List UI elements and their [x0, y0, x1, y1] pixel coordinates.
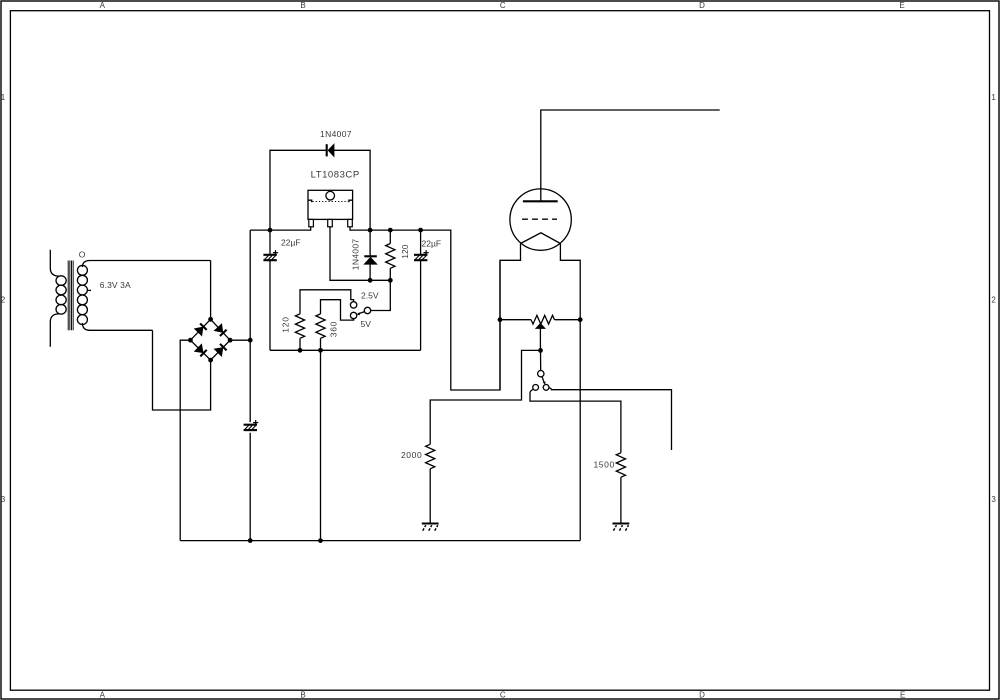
- resistor R2 120: [295, 314, 304, 338]
- svg-text:5V: 5V: [361, 319, 372, 329]
- wire protection diode loop: [270, 150, 370, 230]
- node ADJ at R1: [388, 278, 393, 283]
- svg-text:3: 3: [1, 495, 6, 504]
- ground at R5: [422, 524, 439, 531]
- zone labels left: [1, 93, 6, 504]
- U1 pin 3: [348, 219, 353, 226]
- svg-text:E: E: [900, 690, 905, 699]
- svg-text:2: 2: [991, 295, 996, 304]
- svg-text:1N4007: 1N4007: [351, 239, 361, 271]
- wire right throw to open stub: [549, 388, 672, 450]
- bridge diode D4 (bottom-right edge): [215, 344, 227, 356]
- capacitor C1 (filter, lower left): [244, 420, 259, 430]
- wire lower return line: [270, 349, 421, 351]
- node R3 bottom: [318, 348, 323, 353]
- node wiper junction: [538, 348, 543, 353]
- node output rail at C3: [418, 228, 423, 233]
- wire wiper to switch S2 pole: [540, 350, 542, 371]
- switch S1 throw 2.5V: [350, 302, 356, 308]
- node ADJ at D6: [368, 278, 373, 283]
- resistor R5 2000: [426, 444, 435, 469]
- wire wiper to R5 2000: [430, 350, 540, 444]
- capacitor C2 22uF input: [269, 230, 271, 350]
- svg-text:120: 120: [400, 244, 410, 258]
- bridge diode D2 (top-right edge): [215, 324, 227, 336]
- diode D6 1N4007 (vertical, across ADJ): [369, 230, 371, 280]
- svg-text:2000: 2000: [401, 450, 422, 460]
- node bridge plus: [248, 338, 253, 343]
- transformer T1 core: [68, 261, 73, 331]
- switch S2 throw left: [533, 385, 539, 391]
- wire 2.5V throw to R2: [300, 290, 354, 314]
- node bottom rail at R3 line: [318, 538, 323, 543]
- switch S1 pole: [364, 307, 370, 313]
- switch S2 lever: [542, 377, 546, 385]
- svg-text:O: O: [79, 250, 86, 260]
- node bottom rail at C1: [248, 538, 253, 543]
- svg-text:B: B: [300, 1, 305, 10]
- svg-text:22µF: 22µF: [422, 239, 442, 249]
- wire bottom rail: [180, 540, 580, 542]
- svg-text:120: 120: [281, 316, 291, 333]
- capacitor C3 22uF output: [420, 230, 422, 350]
- node R2 bottom: [298, 348, 303, 353]
- bridge vertex nodes: [208, 317, 213, 322]
- wire raw DC vertical rail: [249, 230, 251, 540]
- wire bridge plus to main rail: [230, 339, 250, 341]
- transformer center tap tick: [87, 289, 91, 291]
- zone labels top: [100, 1, 905, 10]
- switch S1 throw 5V: [350, 312, 356, 318]
- transformer T1 primary winding: [50, 250, 66, 347]
- U1 pin 2: [328, 219, 333, 226]
- node input rail / C2: [268, 228, 273, 233]
- diode D5 1N4007 (protection, horizontal): [327, 144, 334, 156]
- pot wiper arrow: [536, 324, 544, 329]
- svg-text:6.3V 3A: 6.3V 3A: [100, 280, 131, 290]
- wire plate lead: [541, 110, 720, 201]
- svg-text:1: 1: [1, 93, 6, 102]
- wire heater right leg: [560, 244, 580, 541]
- wire R3 bottom to bottom rail: [320, 350, 322, 540]
- potentiometer R4 (hum balance): [500, 319, 580, 321]
- node output rail at R1: [388, 228, 393, 233]
- svg-text:B: B: [300, 690, 305, 699]
- wire heater left leg: [500, 244, 521, 391]
- wire input rail to regulator pin1: [250, 227, 311, 230]
- svg-text:22µF: 22µF: [281, 238, 301, 248]
- svg-text:A: A: [100, 1, 106, 10]
- switch S2 throw right: [543, 385, 549, 391]
- svg-text:C: C: [500, 690, 506, 699]
- wire 5V throw to R3: [321, 300, 354, 320]
- svg-text:A: A: [100, 690, 106, 699]
- svg-text:2.5V: 2.5V: [361, 290, 379, 300]
- switch S2 pole: [538, 371, 544, 377]
- resistor R6 1500: [616, 453, 625, 477]
- wire left throw to R6 1500: [530, 389, 621, 453]
- bridge diode D3 (left-bottom edge): [195, 345, 207, 357]
- transformer T1 secondary winding 6.3V 3A: [77, 261, 210, 331]
- tube plate: [523, 200, 558, 202]
- wire ADJ pin down: [330, 227, 390, 280]
- svg-text:D: D: [699, 690, 705, 699]
- svg-text:1N4007: 1N4007: [320, 129, 352, 139]
- wire secondary bottom to bridge bottom: [153, 330, 211, 410]
- wire secondary top to bridge top: [210, 261, 212, 320]
- zone labels right: [991, 93, 996, 504]
- svg-text:LT1083CP: LT1083CP: [311, 170, 360, 181]
- svg-text:2: 2: [1, 295, 6, 304]
- wire bridge minus to bottom rail: [180, 340, 190, 540]
- zone labels bottom: [100, 690, 906, 699]
- svg-text:360: 360: [329, 321, 339, 337]
- U1 pin 1: [309, 219, 314, 226]
- vacuum tube V1 envelope: [510, 189, 571, 250]
- node pot right: [578, 317, 583, 322]
- svg-text:1: 1: [991, 93, 996, 102]
- tube filament: [521, 233, 561, 244]
- svg-text:1500: 1500: [593, 459, 614, 469]
- wire regulator output rail to heater: [350, 227, 500, 390]
- op: regulator U1 LT1083CP package: [308, 190, 353, 219]
- resistor R1 120: [389, 230, 391, 280]
- svg-text:D: D: [699, 1, 705, 10]
- bridge rectifier diamond wires: [190, 319, 230, 360]
- svg-text:C: C: [500, 1, 506, 10]
- node output rail at D6: [368, 228, 373, 233]
- node pot left: [498, 317, 503, 322]
- ground at R6: [613, 524, 630, 531]
- tube grid (dashed): [522, 218, 557, 220]
- switch S1 lever: [357, 312, 365, 316]
- svg-text:3: 3: [991, 495, 996, 504]
- wire ADJ to voltage select switch pole: [371, 280, 391, 310]
- resistor R3 360: [316, 314, 325, 338]
- svg-text:E: E: [899, 1, 904, 10]
- bridge diode D1 (left-top edge): [195, 324, 207, 336]
